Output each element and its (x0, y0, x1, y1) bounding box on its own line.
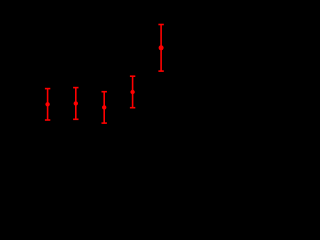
marker 5 (159, 45, 164, 50)
error bar 3 (102, 92, 107, 123)
error bar 4 (130, 76, 135, 108)
marker 3 (102, 105, 106, 109)
marker 1 (45, 102, 49, 106)
error bar 2 (73, 88, 78, 120)
error bar 5 (158, 25, 163, 72)
marker 4 (130, 90, 134, 94)
error bar 1 (45, 89, 50, 120)
marker 2 (74, 101, 78, 105)
